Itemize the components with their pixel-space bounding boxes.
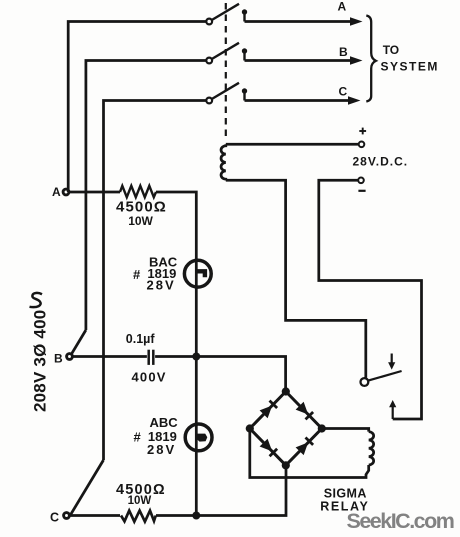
wire: relay coil return to bridge left (250, 429, 369, 478)
switch S2 blade (212, 43, 239, 59)
bridge corner node left (246, 424, 254, 432)
lamp DS1 (BAC #1819) (184, 260, 211, 287)
label SIGMA RELAY (320, 486, 369, 513)
wire: phase C jog to node C (71, 460, 104, 515)
wire: coil bottom to relay contact (226, 180, 366, 378)
svg-text:10W: 10W (128, 495, 152, 507)
diode CR4 (lower right) (296, 437, 314, 455)
wire: R2 line to bridge bottom (156, 465, 286, 515)
label 4500ohm 10W (R2) (116, 482, 166, 507)
bridge corner node bottom (282, 461, 290, 469)
capacitor C1 0.1uF (149, 350, 154, 365)
svg-text:400V: 400V (132, 369, 167, 384)
wire: phase C bus (third row) (104, 101, 207, 461)
label BAC #1819 28V (133, 255, 178, 293)
svg-text:0.1µf: 0.1µf (126, 332, 156, 346)
switch S2 fixed contact (242, 48, 247, 60)
switch S1 fixed contact (242, 9, 247, 21)
label - (358, 190, 365, 192)
node C (50, 511, 69, 525)
lamp DS2 (ABC #1819) (185, 424, 212, 451)
svg-text:C: C (339, 85, 348, 99)
node A (52, 185, 69, 199)
svg-text:28V.D.C.: 28V.D.C. (353, 155, 409, 169)
wire: coil top to + terminal (226, 143, 359, 146)
diode CR2 (upper right) (296, 402, 314, 420)
arrow down (actuation) (388, 354, 395, 370)
svg-text:10W: 10W (128, 214, 153, 228)
coil K1 (28 VDC relay coil) (221, 144, 226, 180)
diode CR3 (lower left) (260, 439, 278, 457)
resistor R2 4500 ohm (121, 511, 156, 522)
wire: minus terminal return to contact arrow (319, 180, 422, 419)
switch S2 contact circle (206, 58, 212, 64)
switch S3 blade (212, 83, 239, 99)
svg-text:28V: 28V (147, 442, 176, 457)
relay contact pivot circle (361, 378, 369, 386)
svg-text:SIGMA: SIGMA (324, 486, 367, 500)
wire: node B line left of capacitor (72, 355, 147, 358)
label + (359, 128, 366, 135)
wire: lamp column bottom (195, 451, 198, 516)
junction (B line / lamp column) (192, 353, 200, 361)
wire: output C (245, 99, 351, 102)
svg-text:#: # (133, 267, 141, 282)
diode CR1 (upper left) (260, 400, 278, 418)
svg-text:B: B (339, 45, 348, 59)
wire: phase B jog to node B (71, 330, 86, 355)
relay coil K2 (sigma relay) (369, 432, 374, 465)
wire: output B (245, 59, 353, 62)
switch S1 blade (212, 4, 239, 20)
label TO SYSTEM (381, 43, 439, 73)
svg-text:A: A (52, 185, 61, 199)
wire: output A (245, 20, 353, 23)
mechanical link (dashed) (225, 3, 227, 140)
svg-text:C: C (50, 511, 59, 525)
terminal - (358, 178, 364, 184)
wire: node B line to bridge top (155, 357, 286, 392)
wire: bridge right to relay coil (322, 429, 369, 432)
arrow up (contact return) (389, 400, 396, 419)
wire: node A line (69, 191, 120, 194)
svg-text:B: B (54, 352, 63, 366)
wire: R1 to lamp column (156, 192, 196, 260)
switch S3 fixed contact (242, 88, 247, 100)
switch S1 contact circle (206, 19, 212, 25)
wire: phase A bus (top row) (68, 22, 206, 193)
svg-text:SYSTEM: SYSTEM (381, 60, 439, 74)
wire: phase B bus (second row) (86, 61, 206, 331)
svg-text:ABC: ABC (150, 415, 179, 430)
node B (54, 352, 72, 366)
terminal + (359, 142, 365, 148)
svg-text:#: # (134, 430, 142, 445)
label ABC #1819 28V (134, 415, 179, 457)
relay contact blade (368, 371, 401, 381)
arrow C (348, 96, 361, 105)
arrow A (350, 17, 363, 26)
bridge rectifier frame (250, 392, 322, 466)
bridge corner node right (318, 424, 326, 432)
svg-text:A: A (338, 0, 347, 14)
svg-text:SeekIC.com: SeekIC.com (347, 509, 454, 533)
switch S3 contact circle (206, 98, 212, 104)
junction (C line / lamp column) (192, 512, 200, 520)
resistor R1 4500 ohm (120, 186, 156, 197)
wire: node C line (69, 514, 120, 517)
svg-text:28V: 28V (147, 278, 176, 293)
AC squiggle (30, 293, 43, 307)
label 4500ohm 10W (R1) (116, 199, 167, 228)
arrow B (350, 56, 363, 65)
svg-text:208V 3Ø 400: 208V 3Ø 400 (31, 310, 50, 412)
svg-text:TO: TO (383, 43, 399, 57)
bridge corner node top (282, 387, 290, 395)
brace to system (366, 16, 376, 102)
wire: lamp column middle (195, 287, 198, 424)
